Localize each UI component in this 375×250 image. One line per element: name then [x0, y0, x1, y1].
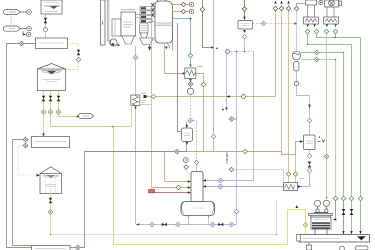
valve diamond on x244.5: [242, 7, 247, 12]
wire tan outlet 1: [173, 4, 190, 6]
discharge bar: [299, 235, 370, 243]
valve diamond HX3-a: [286, 172, 291, 177]
pump circle P2: [187, 88, 193, 94]
valve bowtie V1: [44, 18, 48, 24]
wire dashed CB1 right: [253, 23, 295, 25]
valve bowtie T1-a: [42, 96, 46, 102]
valve diamond x231.5 y169.5: [229, 167, 234, 172]
node dot: [50, 234, 51, 235]
heater HE2: [324, 17, 339, 24]
wire purple vertical x213: [213, 0, 215, 152]
valve diamond on x213: [211, 134, 216, 139]
wire stubs into HX3: [289, 176, 296, 182]
valve diamond below CB1: [242, 34, 247, 39]
arrow x351.5 into bar: [350, 231, 352, 234]
arrow inlet y187: [188, 186, 191, 188]
instrument circle on feed line: [44, 28, 48, 32]
arrow up top x287: [287, 1, 289, 4]
tick mark x222: [222, 109, 225, 111]
HX1 label: [141, 93, 146, 95]
wire purple from A1: [297, 71, 310, 135]
valve diamond on brown: [200, 7, 205, 12]
screw feeder box F1: [36, 38, 68, 49]
duct marks: [118, 44, 121, 47]
node dots green: [335, 37, 336, 38]
wire tan vertical x287: [288, 2, 290, 172]
arrow on olive at x228: [227, 95, 230, 97]
wire green x335.6 into reactor: [334, 201, 336, 220]
arrow up top x280.5: [280, 1, 282, 4]
valve circle-diamond y224-f: [229, 222, 234, 227]
reactor legs: [315, 229, 327, 234]
dark diamond top x296.3: [297, 4, 306, 6]
valve circle-diamond on main: [175, 149, 180, 154]
wire lavender x296.3 to pump: [296, 11, 298, 51]
compressor unit CU2: [325, 0, 342, 7]
wire yellow dashed to valve stack: [68, 44, 79, 50]
node dots y51: [236, 51, 238, 53]
wire green d3 down: [326, 34, 328, 154]
instrument circle above vessel: [183, 158, 188, 163]
wire main horizontal tan part: [187, 152, 296, 155]
wire tan riser x275.5: [275, 11, 277, 97]
valve circle-diamond T1-c2: [56, 110, 61, 115]
valve bowtie T1-c: [57, 96, 61, 102]
arrow into T2: [37, 174, 40, 177]
arrow inlet y181: [188, 180, 191, 182]
valve circle-diamond M1-a: [23, 137, 28, 142]
cyclone vessel: [140, 23, 149, 38]
valve bowtie T1-b: [49, 96, 53, 102]
HX2 label: [197, 66, 203, 68]
vessel2 separator: [304, 135, 316, 150]
wires CU1 to heater: [308, 5, 315, 17]
valve circle-diamond on feeder line: [19, 41, 24, 46]
junction marks: [216, 47, 218, 49]
wire teal from column: [173, 19, 191, 54]
node dot pl1: [343, 52, 344, 53]
mill box M1: [32, 137, 70, 148]
wire red vertical x177: [178, 23, 182, 132]
arrow teal down: [189, 18, 191, 21]
HX3 label: [299, 178, 305, 180]
reactor R1 gauges: [314, 200, 329, 212]
tube bank: [140, 3, 155, 23]
wires CU2 to heater: [327, 7, 334, 17]
canister C1: [182, 128, 193, 142]
wire yellow to flag tag: [59, 116, 79, 118]
wire dark vertical x172.6: [172, 12, 174, 50]
instrument circle B2: [27, 26, 32, 31]
wire drum left leg down: [188, 218, 190, 225]
valve circle-diamond inst: [188, 118, 193, 123]
valve circle-diamond pl2: [314, 57, 319, 62]
wire pump line2 right: [301, 60, 336, 217]
valve circle-diamond y224-c: [176, 222, 181, 227]
label dashes: [141, 101, 146, 103]
wire yellow below HX1: [131, 106, 133, 127]
valve circle-diamond on y186.5: [218, 184, 223, 189]
arrow into HX2 left: [183, 72, 186, 74]
valve diamond on x203: [201, 82, 206, 87]
instrument circle B3: [26, 32, 31, 37]
node dot on yellow: [112, 126, 114, 128]
arrow x343.5 into bar: [342, 231, 344, 234]
reactor R1 body: [311, 217, 331, 229]
valve circle-diamond B4-r: [75, 245, 80, 250]
wire feeder left line: [7, 44, 36, 248]
valve diamond green: [76, 57, 81, 62]
valve diamond HE2-a: [324, 29, 329, 34]
boiler drum column: [155, 1, 173, 43]
valve diamond HE2-b: [333, 29, 338, 34]
arrow below HX2: [189, 79, 191, 82]
arrow out CB1: [243, 30, 246, 33]
boiler drum dome circle: [157, 0, 166, 6]
wire purple above HX1: [135, 46, 137, 95]
pump P3: [292, 51, 300, 59]
instrument circle O1: [189, 2, 193, 6]
heater outlet arrows: [307, 25, 337, 28]
instrument circle y96.5: [242, 95, 246, 99]
valve circle-diamond y224-a: [150, 222, 155, 227]
arrow out HX3 right: [298, 185, 301, 187]
tank T1 outlet stubs: [44, 91, 59, 135]
boiler stack: [101, 0, 106, 45]
valve diamond on olive: [151, 94, 156, 99]
wire tan inlet y187: [152, 187, 189, 189]
instrument tag FI-2: [3, 26, 26, 31]
product bin box B4: [32, 246, 71, 250]
valve diamond v2-c: [307, 168, 312, 173]
arrow into canister top: [186, 125, 189, 128]
wire tan outlet 2: [173, 11, 190, 13]
arrow into vessel y186.5: [203, 185, 206, 187]
valve diamond tan on main: [243, 149, 248, 154]
instrument circle O2: [189, 9, 193, 13]
valve diamond HE1-b: [314, 29, 319, 34]
wire yellow down x113.5: [113, 127, 115, 245]
valve diamond O2: [181, 9, 186, 14]
vent marks right of vessel2: [318, 136, 325, 142]
wire HX2 right: [196, 74, 204, 152]
wire hopper to feeder: [45, 14, 47, 38]
wire drum right leg down: [208, 218, 210, 225]
arrow below HX1: [134, 107, 136, 110]
valve bowtie x343.5: [342, 209, 346, 215]
wire green d1: [308, 34, 352, 196]
ash bin: [140, 38, 154, 45]
wire brown right riser: [70, 152, 85, 248]
wire purple below HX1: [135, 106, 137, 225]
wire tan stub x295.5: [295, 155, 297, 172]
wire green x343.5 lower: [343, 201, 345, 234]
controller box CB1: [238, 21, 253, 30]
valve bowtie v2-b: [308, 162, 312, 168]
column tail: [167, 43, 170, 49]
arrow brown right: [211, 46, 214, 48]
arrow x360.3 into bar: [359, 231, 361, 234]
dashed stub x227: [226, 152, 228, 164]
wire pump line1 right: [301, 53, 344, 236]
arrow left end y224: [136, 223, 139, 225]
tank T2 outlet: [50, 194, 52, 235]
heat exchanger HX2: [185, 68, 196, 79]
wire teal into HX2: [190, 58, 192, 66]
valve circle-diamond on y180.5: [218, 178, 223, 183]
arrow into flag: [77, 115, 80, 117]
heater HE1: [304, 17, 319, 24]
flag tag out1: [79, 113, 94, 118]
wire vessel2 bottom: [309, 150, 311, 154]
valve diamond v2-a: [307, 154, 312, 159]
wire from M1-a left down: [13, 140, 32, 246]
bin outlet arrow: [148, 45, 151, 51]
valve circle-diamond on dashed: [261, 21, 266, 26]
valve circle-diamond T2-b: [48, 210, 53, 215]
valve diamond top x280.5: [279, 6, 284, 11]
arrow up top x275: [274, 1, 276, 4]
wire purple bottom y224: [136, 52, 237, 225]
arrow into vessel y180.5: [203, 179, 206, 181]
valve diamond on y187: [176, 185, 181, 190]
wire yellow dashed into tank T1: [66, 62, 79, 70]
accumulator A1: [294, 62, 299, 72]
wire pink link: [10, 15, 12, 26]
wire purple y186.5 long: [205, 186, 310, 188]
valve diamond right-2: [341, 196, 346, 201]
valve diamond HE1-a: [305, 29, 310, 34]
valve circle-diamond on x326.9: [324, 154, 329, 159]
wire tan HX1 right: [140, 104, 152, 106]
small circle below bar: [340, 246, 345, 250]
valve circle-diamond on yellow: [303, 223, 308, 228]
arrow into CB1: [243, 17, 246, 20]
arrow x226: [225, 108, 227, 111]
wire x326.9 lower: [326, 159, 328, 198]
arrow into reactor right: [333, 218, 336, 220]
valve diamond O1: [181, 2, 186, 7]
valve circle-diamond T1-a2: [41, 110, 46, 115]
wire green x351.5 lower: [351, 201, 353, 234]
wire dash M1-b: [18, 146, 36, 176]
storage tank T1: [38, 64, 66, 91]
node dot pl2: [335, 59, 336, 60]
burner fan circle: [110, 39, 117, 46]
wire brown vertical x202: [203, 0, 213, 48]
wire tan vertical x164 upper: [165, 44, 184, 74]
fan housing: [112, 19, 121, 36]
valve diamond on x236: [234, 209, 239, 214]
wire purple x253.5 down: [205, 52, 254, 181]
arrow dashed right: [295, 22, 298, 24]
node dot right: [276, 234, 277, 235]
wire light green bottom: [51, 234, 277, 236]
valve diamond HX3-b: [293, 172, 298, 177]
stack line 2: [107, 0, 109, 41]
wire red inlet y192: [155, 192, 188, 194]
receiver drum D1: [181, 202, 215, 216]
valve diamond top x275: [273, 6, 278, 11]
wire yellow mid horizontal: [51, 126, 132, 128]
valve diamond below it: [184, 165, 189, 170]
wire tan to vessel2: [296, 142, 301, 155]
wire dashed to x197: [193, 121, 197, 160]
valve diamond x296.3: [294, 6, 299, 11]
arrow out canister bottom: [186, 142, 189, 145]
valve bowtie x351.5: [350, 209, 354, 215]
valve circle-diamond M1-b: [23, 143, 28, 148]
boiler interconnect lines: [121, 10, 155, 22]
valve bowtie V2: [77, 50, 81, 56]
arrow marks near reactor: [296, 205, 299, 208]
fitting on olive line: [144, 95, 147, 98]
wire bright yellow bottom: [114, 210, 306, 245]
compressor unit CU1: [306, 0, 323, 5]
wire green d2: [317, 38, 361, 197]
wire below HX2: [190, 79, 192, 91]
small box below bar: [307, 242, 312, 250]
wire branch to B3: [23, 31, 26, 34]
small rounded box bottom right: [355, 246, 368, 250]
valve diamond-dot x231.5: [229, 117, 234, 122]
dash right y169.5: [234, 170, 283, 182]
reactor R1 lid: [309, 214, 333, 218]
valve diamond right-4: [358, 196, 363, 201]
wire light green x276: [276, 199, 278, 235]
wire dashed instrument down: [190, 95, 192, 119]
wire purple x226 down: [226, 52, 228, 108]
instrument tag FI-1: [4, 10, 27, 15]
instrument circle y51: [226, 50, 230, 54]
arrow into vessel2: [300, 140, 303, 142]
wire green d4 stub: [335, 34, 337, 38]
wire into vessel top: [196, 165, 198, 172]
valve circle-diamond below HX2: [188, 82, 193, 87]
valve circle-diamond T1-b2: [48, 110, 53, 115]
node dot x326.9 end: [326, 197, 328, 199]
wire brown x244.5 top: [244, 0, 246, 20]
instrument circle B1: [27, 10, 32, 15]
wire tan vertical x151: [151, 6, 153, 189]
valve diamond right-1: [333, 196, 338, 201]
drum legs: [189, 216, 209, 218]
wire green d3 joins: [316, 34, 318, 38]
heat exchanger HX1: [131, 95, 140, 106]
column bottom arrow: [165, 47, 168, 50]
wire CB1 down to y51: [244, 39, 246, 52]
valve circle-diamond pl1: [314, 50, 319, 55]
valve diamond x309: [307, 118, 312, 123]
wire tan vertical x280.5: [281, 2, 283, 152]
storage tank T2: [40, 167, 62, 194]
tiny box at x297: [297, 235, 301, 242]
wire green x360.3 lower: [360, 201, 362, 234]
wire canister top stub: [186, 122, 188, 126]
valve circle-diamond y224-d: [210, 222, 215, 227]
valve diamond purple: [194, 160, 199, 165]
arrow into B3: [23, 33, 26, 35]
wire main horizontal y151.5: [85, 151, 187, 153]
instrument circle on purple: [294, 81, 298, 85]
wire x309 to y185.8: [309, 173, 311, 187]
feed hopper H1: [41, 0, 62, 14]
valve diamond teal: [188, 53, 193, 58]
valve bowtie T2-a: [49, 198, 53, 204]
valve bowtie y224-e: [218, 223, 223, 227]
heat exchanger HX3: [284, 183, 298, 191]
wire canister to main line: [186, 142, 188, 152]
wire dashed into vessel: [186, 169, 189, 174]
furnace hopper: [122, 36, 135, 44]
valve diamond top x287: [286, 6, 291, 11]
wire olive y96: [147, 96, 276, 98]
red box end: [149, 190, 155, 193]
valve bowtie y224-b: [162, 223, 167, 227]
arrow on x309: [308, 105, 311, 109]
valve diamond right-3: [349, 196, 354, 201]
wire tan inlet y181: [165, 152, 189, 182]
dash x235: [235, 118, 238, 120]
arrow into HX2: [189, 65, 191, 68]
arrow into mill: [42, 133, 44, 136]
furnace box: [121, 12, 136, 36]
wire dashed horizontal y51: [227, 51, 254, 53]
vessel column V-1: [191, 172, 203, 202]
valve circle-diamond on purple: [133, 55, 138, 60]
arrow inlet y192: [188, 191, 191, 193]
